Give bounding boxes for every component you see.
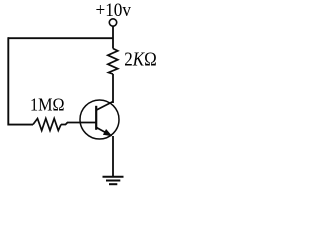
wire emitter to ground bbox=[112, 136, 114, 177]
svg-text:2KΩ: 2KΩ bbox=[124, 49, 157, 71]
ground symbol bbox=[103, 176, 124, 178]
transistor Q1 emitter lead with arrow bbox=[97, 128, 112, 136]
svg-text:+10v: +10v bbox=[96, 0, 132, 21]
transistor Q1 (NPN) body circle bbox=[80, 100, 119, 139]
svg-text:1MΩ: 1MΩ bbox=[30, 94, 65, 114]
wire left vertical bbox=[7, 37, 9, 125]
wire R2 to Q1 base bbox=[61, 123, 96, 125]
transistor Q1 base bar bbox=[95, 106, 97, 130]
power terminal +10v bbox=[109, 19, 116, 26]
wire terminal to R1 top bbox=[112, 26, 114, 48]
transistor Q1 collector lead bbox=[97, 102, 114, 111]
wire bottom-left to R2 bbox=[8, 124, 33, 126]
resistor R1 2KΩ bbox=[108, 49, 118, 75]
wire R1 bottom to collector node bbox=[112, 74, 114, 103]
resistor R2 1MΩ bbox=[33, 119, 61, 131]
wire top horizontal bbox=[8, 37, 113, 39]
